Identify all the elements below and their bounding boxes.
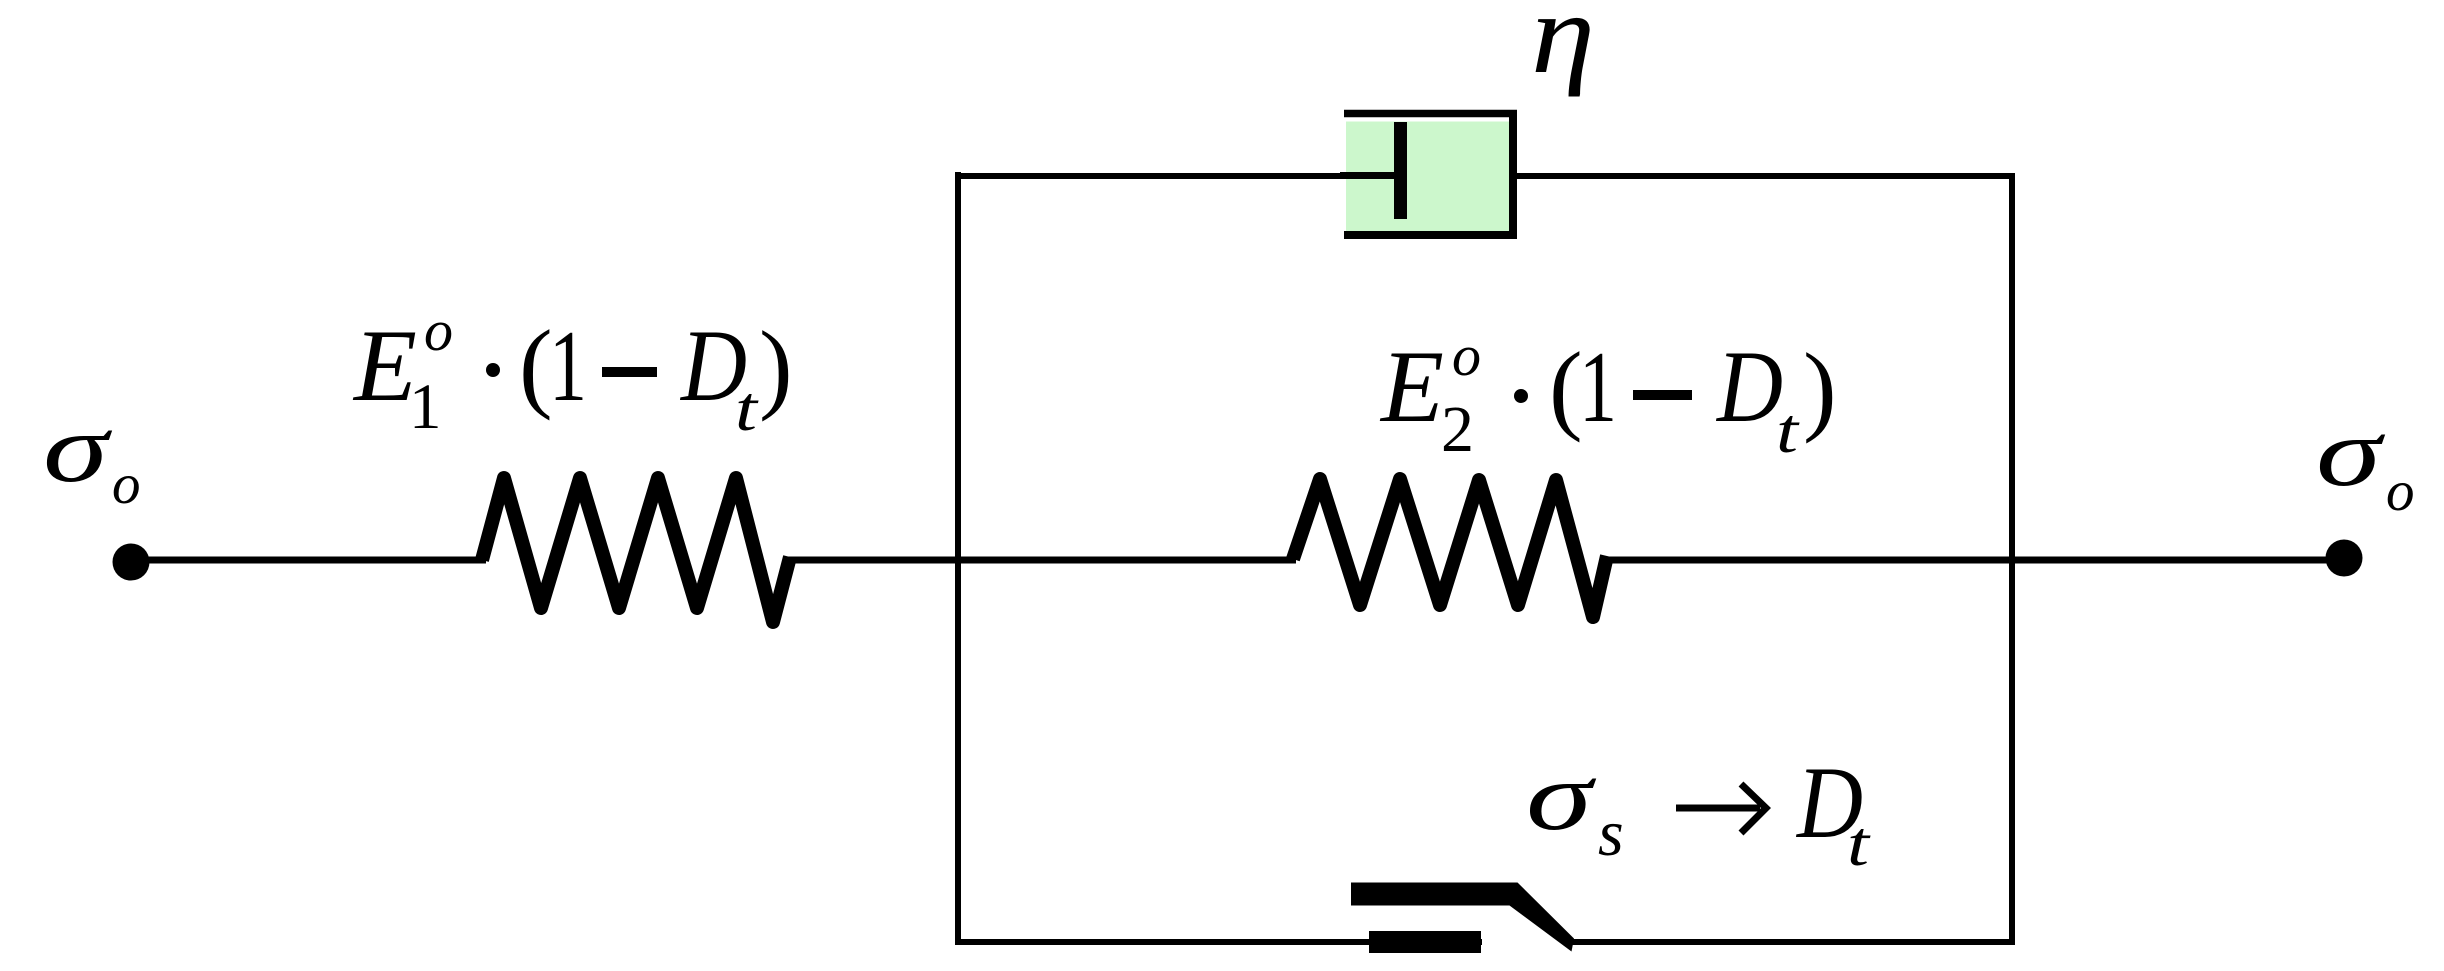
svg-text:(: ( bbox=[1549, 331, 1583, 443]
svg-text:E: E bbox=[352, 309, 417, 423]
wire from left terminal to spring E1 bbox=[131, 557, 486, 564]
svg-text:): ) bbox=[1803, 332, 1837, 444]
dashpot piston plate bbox=[1394, 122, 1407, 219]
parallel frame bottom wire, left segment bbox=[958, 939, 1482, 945]
svg-text:E: E bbox=[1379, 330, 1444, 444]
svg-text:σ: σ bbox=[1526, 743, 1597, 851]
svg-text:o: o bbox=[424, 298, 453, 363]
svg-text:2: 2 bbox=[1441, 393, 1474, 466]
label sigma_o (left) bbox=[43, 395, 141, 516]
parallel frame top wire, left segment bbox=[955, 173, 1346, 179]
dashpot cylinder top wall bbox=[1344, 110, 1517, 118]
parallel frame left wire (vertical) bbox=[955, 172, 961, 945]
svg-text:o: o bbox=[112, 453, 141, 516]
svg-text:η: η bbox=[1531, 0, 1595, 97]
node sigma_o left terminal dot bbox=[113, 544, 150, 581]
svg-text:o: o bbox=[2386, 460, 2415, 523]
label sigma_s -> D_t (damage trigger) bbox=[1526, 743, 1871, 879]
wire from spring E1 through box left edge to spring E2 bbox=[788, 557, 1296, 564]
switch fixed contact bar bbox=[1369, 931, 1481, 953]
dashpot cylinder green fill bbox=[1346, 122, 1510, 232]
svg-text:t: t bbox=[735, 374, 759, 444]
dashpot cylinder bottom wall bbox=[1344, 231, 1517, 239]
svg-text:σ: σ bbox=[43, 395, 113, 503]
svg-text:1: 1 bbox=[409, 371, 442, 443]
svg-text:1: 1 bbox=[549, 310, 587, 422]
parallel frame right wire (vertical) bbox=[2009, 173, 2015, 945]
svg-text:s: s bbox=[1598, 797, 1624, 870]
svg-text:1: 1 bbox=[1579, 331, 1617, 443]
parallel frame top wire, right segment bbox=[1517, 173, 2015, 179]
spring (resistor zigzag) E2 bbox=[1293, 479, 1607, 617]
svg-text:(: ( bbox=[519, 309, 553, 421]
svg-text:): ) bbox=[759, 310, 793, 422]
label E1^o . (1 - D_t) bbox=[352, 298, 793, 444]
svg-text:o: o bbox=[1452, 323, 1481, 388]
svg-text:t: t bbox=[1776, 396, 1800, 466]
switch blade (bar and diagonal arm) bbox=[1351, 883, 1574, 952]
wire from spring E2 through box right edge to right terminal bbox=[1608, 557, 2344, 564]
svg-text:σ: σ bbox=[2316, 399, 2386, 507]
svg-text:D: D bbox=[1715, 330, 1783, 444]
label E2^o . (1 - D_t) bbox=[1379, 323, 1837, 466]
dashpot piston rod (wire into cylinder) bbox=[1340, 172, 1398, 179]
parallel frame bottom wire, right segment bbox=[1570, 939, 2012, 945]
label sigma_o (right) bbox=[2316, 399, 2415, 523]
spring (resistor zigzag) E1 bbox=[482, 478, 790, 622]
svg-text:t: t bbox=[1847, 809, 1871, 879]
dashpot cylinder right wall bbox=[1509, 110, 1517, 239]
node sigma_o right terminal dot bbox=[2326, 540, 2363, 577]
